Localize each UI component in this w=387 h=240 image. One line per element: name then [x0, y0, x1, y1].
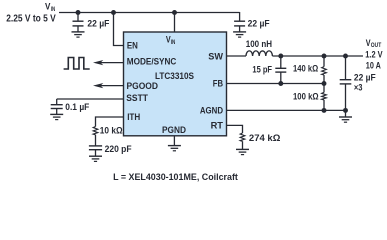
svg-text:OUT: OUT	[371, 42, 382, 49]
svg-text:ITH: ITH	[127, 111, 140, 122]
svg-text:22 µF: 22 µF	[87, 18, 109, 28]
svg-text:22 µF: 22 µF	[354, 72, 376, 82]
svg-text:FB: FB	[213, 78, 223, 89]
svg-text:274 kΩ: 274 kΩ	[249, 133, 281, 143]
svg-text:1.2 V: 1.2 V	[365, 50, 383, 61]
svg-text:MODE/SYNC: MODE/SYNC	[127, 55, 177, 66]
svg-text:AGND: AGND	[200, 105, 223, 116]
svg-text:140 kΩ: 140 kΩ	[293, 64, 318, 74]
svg-text:100 kΩ: 100 kΩ	[293, 92, 319, 102]
svg-text:10 A: 10 A	[366, 60, 381, 71]
svg-text:×3: ×3	[354, 82, 363, 92]
svg-text:IN: IN	[51, 6, 56, 13]
svg-text:10 kΩ: 10 kΩ	[100, 126, 123, 136]
svg-text:PGOOD: PGOOD	[127, 80, 159, 91]
svg-text:L = XEL4030-101ME, Coilcraft: L = XEL4030-101ME, Coilcraft	[113, 172, 239, 183]
svg-text:IN: IN	[171, 39, 176, 46]
svg-text:EN: EN	[127, 39, 138, 50]
svg-text:PGND: PGND	[162, 124, 186, 135]
svg-text:220 pF: 220 pF	[105, 144, 132, 154]
svg-text:LTC3310S: LTC3310S	[155, 70, 194, 81]
svg-text:100 nH: 100 nH	[246, 39, 272, 49]
svg-text:15 pF: 15 pF	[252, 64, 272, 74]
svg-text:2.25 V to 5 V: 2.25 V to 5 V	[6, 13, 56, 24]
svg-text:RT: RT	[211, 120, 224, 131]
svg-text:SW: SW	[208, 50, 223, 61]
svg-text:22 µF: 22 µF	[248, 18, 270, 28]
svg-text:0.1 µF: 0.1 µF	[65, 102, 89, 112]
svg-text:SSTT: SSTT	[126, 92, 148, 103]
